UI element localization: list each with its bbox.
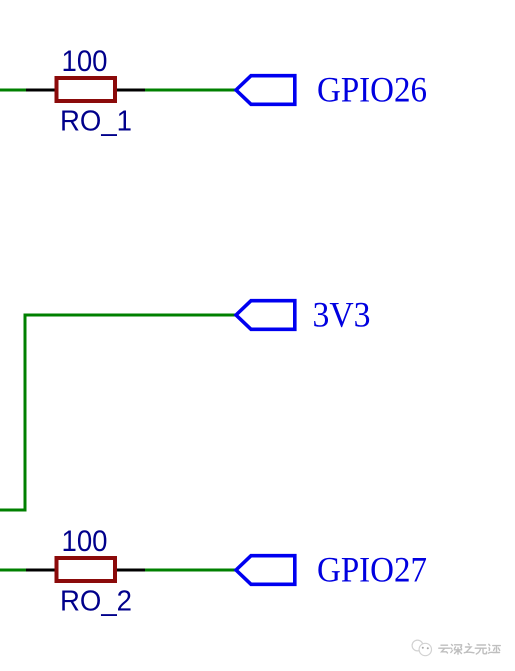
svg-text:GPIO26: GPIO26 — [317, 70, 427, 110]
resistor RO_1 pin 2 — [114, 89, 146, 92]
svg-text:RO_1: RO_1 — [60, 106, 132, 138]
resistor RO_2 body — [57, 558, 116, 581]
svg-text:GPIO27: GPIO27 — [317, 550, 427, 590]
char ji — [488, 644, 500, 653]
resistor RO_2 pin 2 — [114, 569, 146, 572]
svg-text:100: 100 — [62, 45, 108, 78]
resistor RO_1 body — [57, 78, 116, 101]
wire net GPIO26 right segment — [145, 89, 236, 92]
watermark logo — [412, 640, 431, 656]
char shen — [451, 645, 462, 655]
wire net 3V3 — [0, 315, 236, 510]
svg-text:100: 100 — [62, 525, 108, 558]
watermark text 云深之无迹 (drawn strokes) — [439, 644, 501, 655]
resistor RO_2 pin 1 — [26, 569, 57, 572]
svg-text:RO_2: RO_2 — [60, 586, 132, 618]
resistor RO_1 pin 1 — [26, 89, 57, 92]
char wu — [475, 645, 486, 654]
char yun — [439, 645, 450, 653]
port 3V3 symbol — [236, 301, 295, 330]
char zhi — [464, 644, 474, 653]
watermark logo eyes — [422, 647, 429, 649]
svg-text:3V3: 3V3 — [313, 295, 371, 335]
port GPIO27 symbol — [236, 556, 295, 585]
port GPIO26 symbol — [236, 76, 295, 105]
wire net GPIO27 left segment — [0, 569, 28, 572]
wire net GPIO27 right segment — [145, 569, 236, 572]
wire net GPIO26 left segment — [0, 89, 28, 92]
